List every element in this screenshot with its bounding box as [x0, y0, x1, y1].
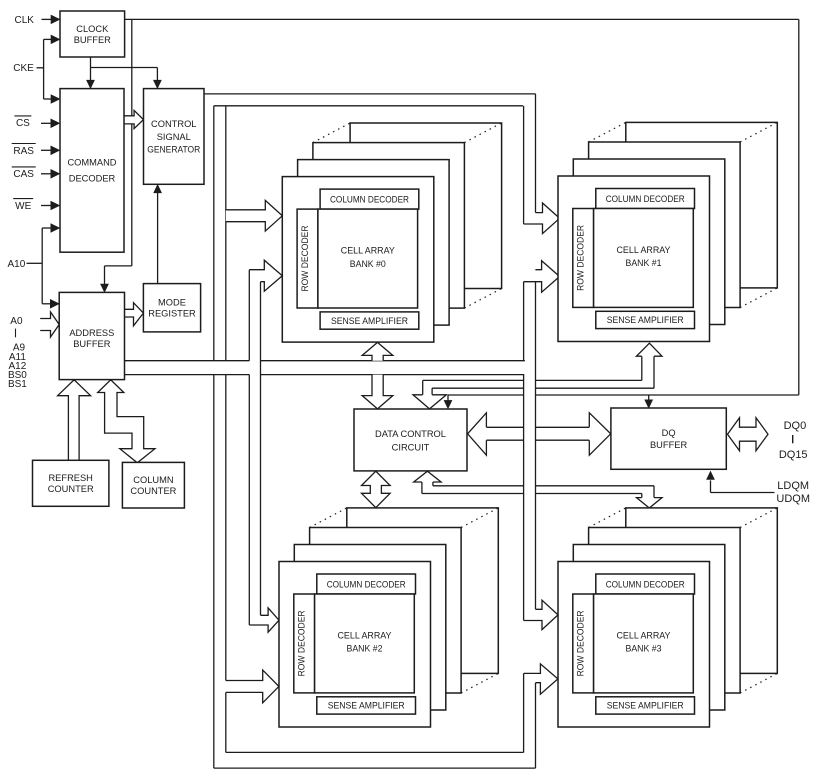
svg-text:CELL ARRAY: CELL ARRAY [341, 245, 395, 255]
svg-text:BANK #0: BANK #0 [350, 259, 386, 269]
svg-text:COUNTER: COUNTER [48, 484, 94, 494]
svg-text:DECODER: DECODER [69, 174, 116, 184]
svg-text:BS1: BS1 [8, 379, 27, 390]
svg-text:ROW DECODER: ROW DECODER [300, 225, 310, 291]
svg-text:COLUMN DECODER: COLUMN DECODER [327, 579, 406, 589]
svg-text:ADDRESS: ADDRESS [69, 328, 114, 338]
svg-text:ROW DECODER: ROW DECODER [576, 610, 586, 676]
svg-text:ROW DECODER: ROW DECODER [576, 225, 586, 291]
svg-text:BUFFER: BUFFER [74, 35, 111, 45]
svg-text:CELL ARRAY: CELL ARRAY [338, 630, 392, 640]
svg-text:BANK #3: BANK #3 [626, 644, 662, 654]
svg-text:SENSE AMPLIFIER: SENSE AMPLIFIER [607, 701, 684, 711]
svg-text:ROW DECODER: ROW DECODER [297, 610, 307, 676]
svg-text:WE: WE [15, 201, 31, 212]
svg-text:REFRESH: REFRESH [48, 473, 92, 483]
svg-text:DATA CONTROL: DATA CONTROL [375, 429, 446, 439]
svg-text:REGISTER: REGISTER [148, 309, 196, 319]
svg-text:RAS: RAS [13, 146, 34, 157]
svg-text:DQ15: DQ15 [779, 449, 808, 461]
svg-text:A0: A0 [10, 316, 23, 327]
svg-text:SENSE AMPLIFIER: SENSE AMPLIFIER [331, 316, 408, 326]
svg-text:CELL ARRAY: CELL ARRAY [617, 630, 671, 640]
svg-text:BANK #2: BANK #2 [347, 644, 383, 654]
svg-text:CIRCUIT: CIRCUIT [392, 442, 430, 452]
svg-text:DQ0: DQ0 [784, 420, 807, 432]
svg-text:COLUMN DECODER: COLUMN DECODER [606, 194, 685, 204]
svg-text:COLUMN DECODER: COLUMN DECODER [330, 194, 409, 204]
svg-text:LDQM: LDQM [777, 480, 809, 492]
svg-text:SIGNAL: SIGNAL [157, 132, 191, 142]
svg-text:COLUMN DECODER: COLUMN DECODER [606, 579, 685, 589]
svg-text:DQ: DQ [662, 428, 676, 438]
svg-text:BUFFER: BUFFER [73, 339, 110, 349]
svg-text:CS: CS [16, 118, 30, 129]
svg-text:COLUMN: COLUMN [133, 475, 173, 485]
svg-text:BANK #1: BANK #1 [626, 258, 662, 268]
svg-text:CLOCK: CLOCK [76, 24, 109, 34]
svg-text:CELL ARRAY: CELL ARRAY [617, 245, 671, 255]
svg-text:CKE: CKE [13, 63, 34, 74]
svg-text:UDQM: UDQM [776, 493, 810, 505]
svg-text:CAS: CAS [13, 169, 34, 180]
svg-text:SENSE AMPLIFIER: SENSE AMPLIFIER [607, 315, 684, 325]
svg-text:CONTROL: CONTROL [151, 119, 196, 129]
svg-text:BUFFER: BUFFER [650, 440, 687, 450]
svg-text:CLK: CLK [14, 15, 34, 26]
svg-text:SENSE AMPLIFIER: SENSE AMPLIFIER [328, 701, 405, 711]
svg-text:GENERATOR: GENERATOR [147, 144, 200, 154]
svg-text:A10: A10 [8, 259, 26, 270]
svg-text:COMMAND: COMMAND [67, 158, 116, 168]
svg-text:MODE: MODE [158, 298, 186, 308]
svg-text:COUNTER: COUNTER [130, 486, 176, 496]
